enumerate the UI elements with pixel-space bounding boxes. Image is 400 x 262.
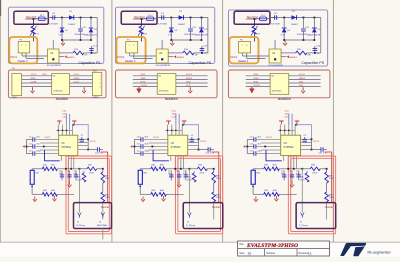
svg-text:R34: R34 — [105, 194, 108, 196]
svg-text:4: 4 — [100, 86, 101, 88]
output connector purple box (phase R) — [74, 203, 112, 229]
svg-text:270K: 270K — [312, 173, 317, 175]
ground sense left (phase T) — [255, 197, 257, 200]
varistor RV1 (phase T) — [253, 19, 255, 26]
ground rail (phase R) — [62, 39, 91, 41]
power symbol VCC right (phase S) — [182, 120, 187, 122]
fuse F1 (phase R) — [38, 17, 45, 21]
resistor R27 (phase S) — [213, 169, 215, 172]
wire U2 input (phase S) — [161, 40, 163, 49]
wire shunt bottom (phase R) — [31, 184, 33, 194]
sense section outer red box (phase S) — [175, 156, 222, 234]
connector J5 S_Phase (phase S) — [188, 213, 190, 216]
svg-text:1N4007: 1N4007 — [291, 24, 299, 26]
wire header pins (phase S) — [129, 53, 131, 56]
metering IC U6 STPMS2 (phase T) — [281, 135, 301, 155]
wire varistor to header (phase T) — [253, 34, 255, 41]
svg-text:270K: 270K — [329, 197, 334, 199]
svg-text:1uF 400V: 1uF 400V — [49, 24, 58, 26]
wire IC right pins (phase R) — [78, 138, 88, 140]
capacitor C15 (phase S) — [134, 146, 141, 148]
svg-text:1u: 1u — [317, 53, 319, 55]
wire phase to connector (phase S) — [188, 169, 190, 213]
capacitor C26 (phase S) — [170, 171, 172, 180]
svg-text:2: 2 — [133, 45, 134, 47]
node A (phase S) — [170, 17, 172, 19]
svg-text:Number: Number — [266, 252, 275, 255]
connector J5 R_Phase (phase R) — [78, 213, 80, 216]
top bus wire (phase S) — [165, 129, 182, 131]
svg-text:22n: 22n — [168, 173, 171, 175]
sense section inner red box (phase T) — [291, 158, 334, 231]
connector J4 NEUTRAL (phase R) — [101, 213, 103, 216]
power symbol VCC left (phase S) — [166, 120, 171, 122]
svg-text:GND: GND — [254, 78, 259, 80]
node C (phase R) — [90, 17, 92, 19]
node fuse junction (phase T) — [254, 18, 256, 20]
svg-text:270K: 270K — [105, 178, 110, 180]
wire phase to connector (phase R) — [78, 169, 80, 213]
svg-text:STISO621: STISO621 — [272, 91, 283, 93]
svg-text:R36: R36 — [77, 177, 80, 179]
wire varistor to header (phase S) — [141, 34, 143, 41]
nodes sense top (phase R) — [65, 168, 67, 170]
svg-text:SMAJ6.0A-TR: SMAJ6.0A-TR — [307, 33, 321, 36]
left cap bus (phase S) — [133, 140, 135, 154]
svg-text:1u: 1u — [204, 53, 206, 55]
capacitor C15 (phase T) — [247, 146, 254, 148]
svg-text:4.7n: 4.7n — [183, 173, 187, 175]
capacitor C4 (phase S) — [161, 15, 163, 19]
svg-text:STPMS2: STPMS2 — [171, 146, 182, 149]
wire right bus (phase T) — [320, 18, 322, 53]
svg-text:DNM2: DNM2 — [93, 97, 100, 99]
svg-text:VCC1: VCC1 — [10, 55, 17, 59]
svg-text:3: 3 — [100, 83, 101, 85]
power symbol VCC right (phase T) — [295, 120, 300, 122]
resistor R42 (phase S) — [140, 193, 151, 195]
svg-text:VTX1: VTX1 — [31, 74, 37, 76]
svg-text:S_Phase: S_Phase — [186, 225, 196, 227]
capacitor C11 (phase R) — [80, 18, 82, 29]
svg-text:2: 2 — [246, 45, 247, 47]
svg-text:1: 1 — [21, 45, 22, 47]
resistor R42 (phase T) — [253, 193, 264, 195]
fuse F1 (phase S) — [147, 17, 154, 21]
svg-text:AGND1: AGND1 — [176, 56, 185, 59]
wire IC right pins (phase S) — [188, 138, 199, 140]
IC bottom pin wires (phase R) — [65, 156, 67, 169]
svg-text:SMAJ6.0A-TR: SMAJ6.0A-TR — [84, 33, 97, 36]
svg-text:RV1: RV1 — [256, 34, 261, 36]
wires U5 left (phase T) — [246, 75, 270, 77]
svg-text:VCC1: VCC1 — [266, 137, 273, 139]
svg-text:TXD: TXD — [186, 81, 191, 83]
ground isolator left (phase S) — [138, 87, 140, 89]
ground isolator left (phase T) — [251, 87, 253, 89]
connector P1 header box (phase S) — [116, 37, 145, 63]
capacitor C28 (phase T) — [291, 171, 293, 180]
isolation block (phase S) — [116, 70, 218, 98]
wires U5 right (phase S) — [176, 75, 208, 77]
svg-text:TXD: TXD — [299, 81, 304, 83]
resistor R27 (phase T) — [326, 169, 328, 172]
ground sense mid (phase T) — [291, 180, 293, 182]
svg-text:22n: 22n — [59, 173, 62, 175]
isolator IC U5 (phase S) — [157, 74, 176, 95]
wire VDD to right (phase T) — [295, 124, 297, 126]
capacitor C23 (phase R) — [81, 137, 83, 139]
svg-text:VCC2: VCC2 — [186, 74, 193, 76]
wire top rail (phase T) — [269, 17, 321, 19]
wire R34 to connector (phase T) — [326, 202, 328, 220]
svg-text:Header 2: Header 2 — [18, 60, 29, 63]
capacitor C17 (phase R) — [27, 153, 33, 155]
wire neutral stub below (phase R) — [102, 229, 104, 240]
capacitor C28 (phase S) — [178, 171, 180, 180]
nodes sense top (phase T) — [287, 168, 289, 170]
resistor R34 (phase R) — [102, 183, 104, 192]
svg-text:C31 4.7n: C31 4.7n — [95, 152, 103, 154]
capacitor C14 (phase S) — [201, 46, 203, 53]
connector J5 T_Phase (phase T) — [300, 213, 302, 216]
wire IC left extra (phase S) — [148, 142, 167, 144]
wire VDD to right (phase R) — [73, 124, 75, 126]
ground isolator right (phase R) — [83, 87, 85, 89]
connector P5 (phase R) — [12, 74, 22, 96]
svg-text:STLQ015M33R: STLQ015M33R — [47, 65, 61, 67]
svg-text:VDD: VDD — [141, 74, 146, 76]
svg-text:1uF 400V: 1uF 400V — [158, 24, 168, 26]
svg-text:GND2: GND2 — [299, 78, 306, 80]
sense section inner red box (phase R) — [68, 158, 109, 231]
footer white band — [0, 243, 400, 257]
wire top rail (phase S) — [156, 17, 208, 19]
resistor R36 (phase T) — [306, 171, 308, 173]
svg-text:VCC1: VCC1 — [230, 55, 238, 59]
svg-text:GND: GND — [141, 78, 146, 80]
svg-text:STISO621: STISO621 — [159, 91, 170, 93]
svg-text:Capacitive PS: Capacitive PS — [301, 61, 324, 65]
mains input box (Neutral) phase R — [14, 11, 48, 24]
sense section inner red box (phase S) — [178, 158, 221, 231]
sense section outer red box (phase T) — [288, 156, 335, 234]
resistor R46 (phase S) — [159, 193, 166, 197]
net arrow left (phase S) — [130, 145, 132, 148]
wire top rail (phase R) — [47, 17, 97, 19]
node A (phase T) — [283, 17, 285, 19]
panel separator 1-2 — [111, 0, 113, 257]
svg-text:100n: 100n — [257, 151, 262, 153]
resistor R34 (phase S) — [213, 183, 215, 192]
connector P10 (phase R) — [93, 72, 102, 95]
ground rail (phase S) — [171, 39, 201, 41]
metering IC U6 STPMS2 (phase R) — [59, 135, 78, 155]
IC bottom pin wires (phase T) — [287, 156, 289, 169]
svg-text:Header 2: Header 2 — [238, 60, 249, 63]
zener diode D4 (phase T) — [283, 18, 285, 28]
svg-text:270K: 270K — [216, 178, 221, 180]
resistor R46 (phase T) — [272, 193, 279, 197]
wire U2 output (phase S) — [168, 52, 183, 54]
regulator U2 (phase T) — [269, 49, 281, 63]
regulator U2 (phase R) — [48, 49, 60, 63]
wire varistor to header (phase R) — [32, 34, 34, 41]
wire header pins (phase R) — [21, 53, 23, 56]
svg-text:CLK1: CLK1 — [74, 81, 80, 83]
svg-text:AGND1: AGND1 — [289, 56, 298, 59]
ground sense mid2 (phase T) — [275, 196, 277, 199]
svg-text:C28: C28 — [176, 170, 180, 172]
svg-text:VCC1: VCC1 — [45, 137, 52, 139]
fuse F1 (phase T) — [259, 17, 266, 21]
wire phase to connector (phase T) — [301, 169, 303, 213]
node B (phase T) — [302, 17, 304, 19]
svg-text:STLQ015M33R: STLQ015M33R — [155, 65, 170, 67]
ground sense mid2 (phase R) — [54, 196, 56, 199]
svg-text:Capacitive PS: Capacitive PS — [79, 61, 102, 65]
resistor R27 (phase R) — [102, 169, 104, 172]
resistor R45 (phase R) — [50, 167, 57, 171]
svg-text:270K: 270K — [105, 197, 110, 199]
shunt resistor R31 (phase S) — [139, 169, 141, 171]
ground symbol top block (phase S) — [171, 40, 173, 43]
wire to neutral red (phase S) — [212, 152, 219, 203]
svg-text:4.7n: 4.7n — [73, 173, 77, 175]
svg-text:1N4007: 1N4007 — [178, 24, 186, 26]
panel separator 2-3 — [222, 0, 224, 242]
wire output rail (phase R) — [84, 52, 97, 54]
capacitor C4 (phase R) — [52, 15, 54, 19]
svg-text:STLQ015M33R: STLQ015M33R — [268, 65, 283, 67]
capacitor C31 (phase R) — [88, 149, 97, 151]
svg-text:R27: R27 — [105, 175, 108, 177]
resistor R45 (phase T) — [272, 167, 279, 171]
svg-text:R_Phase: R_Phase — [76, 225, 86, 227]
svg-text:100n: 100n — [36, 151, 40, 153]
capacitor C14 (phase R) — [91, 46, 93, 53]
capacitor C11 (phase S) — [190, 18, 192, 29]
resistor R30 (phase S) — [197, 167, 207, 171]
svg-text:STPMS2: STPMS2 — [61, 146, 71, 149]
svg-text:Capacitive PS: Capacitive PS — [188, 61, 211, 65]
svg-text:VCC1: VCC1 — [200, 141, 207, 143]
supply wires blue (phase S) — [175, 114, 177, 125]
svg-text:DNM: DNM — [12, 97, 17, 99]
ground sense mid (phase S) — [178, 180, 180, 182]
wire output rail (phase S) — [194, 52, 208, 54]
wires U5 right (phase T) — [289, 75, 321, 77]
svg-text:1: 1 — [129, 45, 130, 47]
wire neutral to fuse (phase R) — [25, 18, 36, 20]
wire IC left extra (phase T) — [261, 142, 280, 144]
diode D1 (phase S) — [179, 15, 184, 20]
isolation block (phase T) — [228, 70, 330, 98]
wire R34 to connector (phase S) — [213, 202, 215, 220]
TVS diode D24 (phase S) — [200, 18, 202, 28]
nodes sense top (phase S) — [174, 168, 176, 170]
svg-text:5.1V: 5.1V — [168, 34, 173, 36]
svg-text:R36: R36 — [187, 177, 191, 179]
ground sense mid2 (phase S) — [162, 196, 164, 199]
svg-text:C31 4.7n: C31 4.7n — [319, 152, 327, 154]
shunt resistor R31 (phase R) — [31, 169, 33, 171]
isolation block (phase R) — [8, 70, 106, 98]
resistor R30 (phase T) — [310, 167, 320, 171]
svg-text:VDD: VDD — [254, 74, 259, 76]
svg-text:100n: 100n — [172, 113, 178, 115]
ground isolator right (phase T) — [302, 87, 304, 89]
resistor R10 (phase S) — [183, 51, 194, 55]
capacitor C30 (phase S) — [185, 171, 187, 180]
mains input box (Neutral) phase S — [121, 11, 157, 24]
IC top pin wires (phase T) — [279, 125, 281, 136]
ground isolator right (phase S) — [189, 87, 191, 89]
svg-text:270K: 270K — [89, 173, 94, 175]
resistor R36 (phase S) — [193, 171, 195, 173]
capacitor C11 (phase T) — [302, 18, 304, 29]
zener diode D4 (phase R) — [61, 18, 63, 28]
capacitor C13 (phase R) — [27, 139, 33, 141]
node C (phase S) — [201, 17, 203, 19]
supply wires blue (phase T) — [288, 114, 290, 125]
svg-text:Isolation: Isolation — [278, 97, 291, 101]
svg-text:GND: GND — [31, 78, 36, 80]
node VCC right (phase S) — [198, 138, 200, 140]
svg-text:100n: 100n — [144, 151, 149, 153]
wire U2 output (phase T) — [281, 52, 296, 54]
svg-text:VCC2: VCC2 — [299, 74, 306, 76]
TVS diode D24 (phase R) — [90, 18, 92, 28]
capacitor C26 (phase T) — [283, 171, 285, 180]
shunt resistor R31 (phase T) — [252, 169, 254, 171]
wires P5 to U5 (phase R) — [22, 75, 52, 77]
IC top pin wires (phase S) — [166, 125, 168, 136]
footer rule — [0, 241, 400, 243]
wire U2 output (phase R) — [59, 52, 73, 54]
power symbol VCC right (phase R) — [72, 120, 76, 122]
net arrow left (phase T) — [243, 145, 245, 148]
svg-text:GND2: GND2 — [186, 78, 193, 80]
svg-text:5.1V: 5.1V — [59, 34, 64, 36]
resistor R10 (phase R) — [73, 51, 84, 55]
node B (phase S) — [190, 17, 192, 19]
IC bottom pin wires (phase S) — [174, 156, 176, 169]
node C (phase T) — [313, 17, 315, 19]
svg-text:5.1V: 5.1V — [281, 34, 286, 36]
svg-text:EVALSTPM-3PHISO: EVALSTPM-3PHISO — [246, 244, 299, 249]
svg-text:1: 1 — [242, 45, 243, 47]
svg-text:4.7n: 4.7n — [296, 173, 300, 175]
node fuse junction (phase R) — [33, 18, 35, 20]
svg-text:Neutral: Neutral — [325, 206, 333, 209]
capacitor C13 (phase S) — [134, 139, 141, 141]
wire IC right pins (phase T) — [301, 138, 312, 140]
capacitor C15 (phase R) — [27, 146, 33, 148]
svg-text:VCC1: VCC1 — [74, 74, 81, 76]
wire shunt bottom (phase S) — [139, 184, 141, 194]
resistor R30 (phase R) — [87, 167, 97, 171]
wires U5 left (phase S) — [133, 75, 157, 77]
svg-text:C28: C28 — [67, 170, 70, 172]
svg-text:Isolation: Isolation — [56, 97, 69, 101]
resistor R41 (phase S) — [140, 168, 151, 170]
svg-text:270K: 270K — [329, 178, 334, 180]
svg-text:1N4007: 1N4007 — [68, 24, 76, 26]
wire U2 input (phase R) — [52, 40, 54, 49]
node B (phase R) — [80, 17, 82, 19]
node VCC right (phase R) — [87, 138, 89, 140]
ground symbol top block (phase T) — [284, 40, 286, 43]
connector P1 header box (phase T) — [229, 37, 258, 63]
power symbol VCC left (phase T) — [279, 120, 284, 122]
svg-text:C31 4.7n: C31 4.7n — [206, 152, 214, 154]
capacitor C28 (phase R) — [69, 171, 71, 180]
isolator IC U5 (phase T) — [270, 74, 289, 95]
resistor R41 (phase T) — [253, 168, 264, 170]
wire caps to IC bottom (phase S) — [153, 150, 169, 161]
TVS diode D24 (phase T) — [313, 18, 315, 28]
diode D1 (phase R) — [69, 15, 74, 20]
svg-text:VCC1: VCC1 — [313, 141, 320, 143]
svg-text:Header 2: Header 2 — [125, 60, 136, 63]
wire R34 to connector (phase R) — [102, 202, 104, 220]
capacitive power-supply block phase T — [228, 10, 327, 66]
connector P1 header box (phase R) — [9, 37, 37, 63]
top bus wire (phase R) — [56, 129, 72, 131]
wire to neutral red (phase T) — [324, 152, 331, 203]
ST logo — [340, 243, 366, 256]
capacitor C23 (phase T) — [304, 137, 306, 139]
top bus wire (phase T) — [278, 129, 295, 131]
capacitor C30 (phase T) — [298, 171, 300, 180]
svg-text:Title:: Title: — [239, 243, 244, 246]
svg-text:GND1: GND1 — [74, 78, 81, 80]
resistor R41 (phase R) — [32, 168, 42, 170]
wire right bus (phase S) — [207, 18, 209, 53]
svg-text:1uF 400V: 1uF 400V — [271, 24, 281, 26]
svg-text:2: 2 — [100, 79, 101, 81]
node fuse junction (phase S) — [141, 18, 143, 20]
svg-text:Neutral: Neutral — [101, 206, 109, 209]
panel separator left edge — [0, 0, 2, 257]
ground sense mid (phase R) — [69, 180, 71, 182]
wire right bus (phase R) — [96, 18, 98, 53]
wire caps to IC bottom (phase T) — [266, 150, 282, 161]
svg-text:life.augmented: life.augmented — [368, 250, 391, 254]
capacitor C4 (phase T) — [274, 15, 276, 19]
capacitor C13 (phase T) — [247, 139, 254, 141]
left cap bus (phase T) — [246, 140, 248, 154]
metering IC U6 STPMS2 (phase S) — [168, 135, 188, 155]
capacitive power-supply block phase S — [116, 7, 215, 63]
capacitor C17 (phase S) — [134, 153, 141, 155]
net label AGND1 (phase R) — [64, 55, 66, 58]
capacitor C31 (phase S) — [199, 149, 209, 151]
resistor R36 (phase R) — [83, 171, 85, 173]
resistor R34 (phase T) — [326, 183, 328, 192]
ground sense left (phase R) — [34, 197, 36, 200]
svg-text:2: 2 — [26, 45, 27, 47]
svg-text:R27: R27 — [329, 175, 333, 177]
resistor R42 (phase R) — [32, 193, 42, 195]
svg-text:STISO621: STISO621 — [53, 91, 63, 93]
svg-text:Size:: Size: — [239, 252, 245, 255]
svg-text:VCC1: VCC1 — [153, 137, 160, 139]
svg-text:T_Phase: T_Phase — [299, 225, 309, 227]
svg-text:CLKR: CLKR — [141, 85, 147, 87]
output connector purple box (phase S) — [183, 203, 223, 229]
